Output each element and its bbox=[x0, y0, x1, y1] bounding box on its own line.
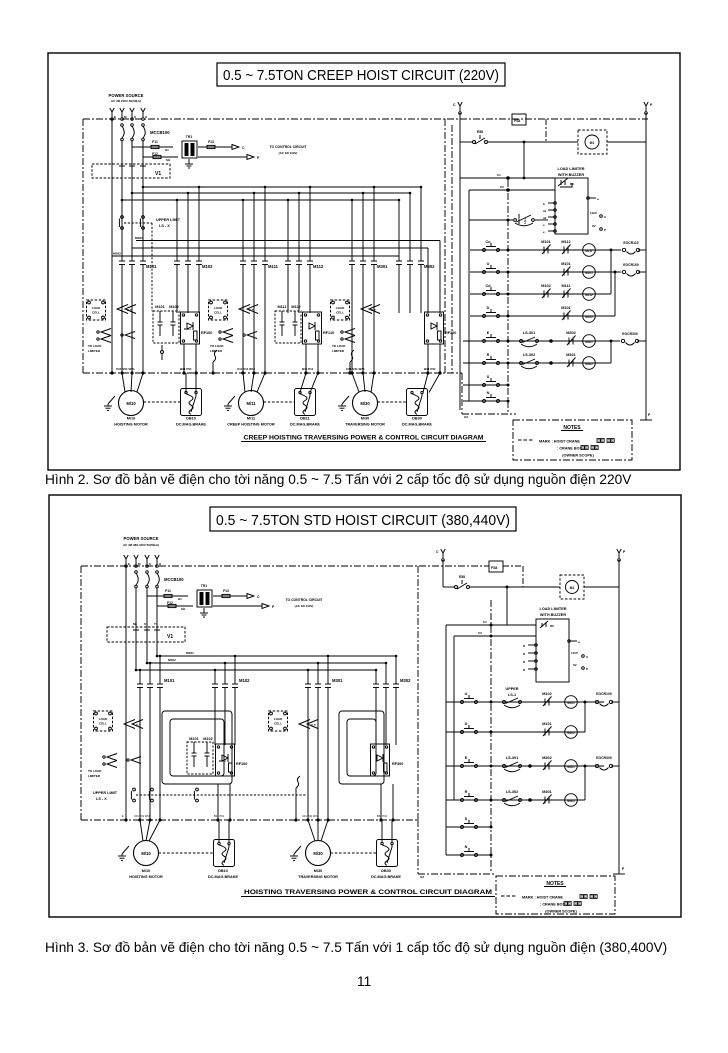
svg-text:M1: M1 bbox=[590, 141, 595, 145]
svg-text:U01 V01 W01: U01 V01 W01 bbox=[116, 367, 135, 371]
svg-text:TRAVERSING MOTOR: TRAVERSING MOTOR bbox=[298, 875, 338, 879]
svg-text:RF300: RF300 bbox=[392, 762, 403, 766]
svg-text:F11: F11 bbox=[165, 589, 171, 593]
svg-text:E58: E58 bbox=[459, 575, 465, 579]
svg-text:MS01: MS01 bbox=[186, 651, 194, 655]
svg-text:E: E bbox=[114, 115, 116, 119]
svg-text:0V: 0V bbox=[573, 663, 577, 667]
svg-text:(AC 1Ø 110V): (AC 1Ø 110V) bbox=[295, 604, 314, 608]
svg-text:MCCB100: MCCB100 bbox=[164, 577, 184, 582]
svg-text:C: C bbox=[257, 595, 260, 599]
svg-text:TR1: TR1 bbox=[201, 584, 208, 588]
svg-text:M102: M102 bbox=[541, 284, 551, 288]
svg-text:D: D bbox=[523, 644, 526, 648]
svg-text:B31 P31: B31 P31 bbox=[424, 367, 436, 371]
svg-text:M112: M112 bbox=[313, 264, 324, 269]
svg-text:C: C bbox=[586, 655, 589, 659]
svg-text:F12: F12 bbox=[152, 152, 158, 156]
svg-text:LS-302: LS-302 bbox=[506, 790, 518, 794]
svg-text:EOCR300: EOCR300 bbox=[596, 756, 612, 760]
svg-text:DB11: DB11 bbox=[300, 417, 310, 421]
svg-text:P: P bbox=[586, 667, 588, 671]
svg-text:M302: M302 bbox=[585, 362, 593, 366]
svg-text:M: M bbox=[124, 115, 127, 119]
svg-text:RF110: RF110 bbox=[323, 331, 334, 335]
svg-text:FS8: FS8 bbox=[491, 566, 497, 570]
svg-text:0.5 ~ 7.5TON CREEP HOIST CIRCU: 0.5 ~ 7.5TON CREEP HOIST CIRCUIT (220V) bbox=[223, 68, 499, 84]
svg-text:P: P bbox=[650, 103, 653, 107]
svg-text:UPPER: UPPER bbox=[505, 687, 518, 691]
svg-text:F13: F13 bbox=[208, 140, 214, 144]
svg-text:C: C bbox=[242, 146, 245, 150]
svg-text:TO LOAD: TO LOAD bbox=[332, 344, 346, 348]
svg-text:M/30: M/30 bbox=[313, 851, 323, 856]
svg-text:TR1: TR1 bbox=[186, 135, 193, 139]
svg-text:110V: 110V bbox=[571, 651, 578, 655]
svg-text:M112: M112 bbox=[291, 305, 300, 309]
svg-text:POWER SOURCE: POWER SOURCE bbox=[124, 536, 159, 541]
svg-text:C.T: C.T bbox=[136, 723, 141, 727]
svg-text:TO LOAD: TO LOAD bbox=[88, 769, 102, 773]
svg-text:(OWNER SCOPE): (OWNER SCOPE) bbox=[545, 910, 577, 914]
svg-text:M302: M302 bbox=[424, 264, 435, 269]
svg-text:M112: M112 bbox=[585, 293, 593, 297]
svg-text:M/30: M/30 bbox=[314, 869, 322, 873]
svg-text:M101: M101 bbox=[585, 271, 593, 275]
svg-text:MS02: MS02 bbox=[168, 658, 176, 662]
svg-text:C: C bbox=[436, 550, 439, 554]
svg-text:R: R bbox=[465, 790, 468, 794]
svg-text:U: U bbox=[487, 262, 490, 266]
svg-text:M302: M302 bbox=[400, 678, 411, 683]
svg-text:DB10: DB10 bbox=[186, 417, 196, 421]
svg-text:e: e bbox=[543, 223, 545, 227]
svg-text:M/10: M/10 bbox=[141, 851, 151, 856]
svg-text:FS8: FS8 bbox=[514, 119, 520, 123]
svg-text:a: a bbox=[597, 197, 599, 201]
svg-text:0.5 ~ 7.5TON STD HOIST CIRCUIT: 0.5 ~ 7.5TON STD HOIST CIRCUIT (380,440V… bbox=[216, 513, 510, 529]
svg-text:a1: a1 bbox=[543, 209, 547, 213]
svg-text:M102: M102 bbox=[585, 315, 593, 319]
svg-text:LS-301: LS-301 bbox=[506, 756, 518, 760]
svg-text:E: E bbox=[122, 814, 124, 818]
svg-text:M101: M101 bbox=[189, 737, 199, 741]
svg-text:M301: M301 bbox=[542, 790, 552, 794]
svg-text:RF100: RF100 bbox=[236, 762, 247, 766]
svg-text:: CRANE BOX: : CRANE BOX bbox=[557, 447, 583, 451]
svg-text:MS02: MS02 bbox=[113, 252, 121, 256]
svg-text:LOAD LIMITER: LOAD LIMITER bbox=[540, 607, 567, 611]
svg-text:M101: M101 bbox=[541, 240, 551, 244]
svg-text:M301: M301 bbox=[585, 340, 593, 344]
svg-text:LS - X: LS - X bbox=[159, 224, 170, 228]
svg-text:M/10: M/10 bbox=[127, 417, 135, 421]
svg-text:M112: M112 bbox=[561, 240, 570, 244]
svg-text:0V: 0V bbox=[592, 224, 596, 228]
svg-text:DC.MAG.BRAKE: DC.MAG.BRAKE bbox=[176, 423, 206, 427]
svg-text:U: U bbox=[465, 692, 468, 696]
svg-text:WITH BUZZER: WITH BUZZER bbox=[540, 613, 566, 617]
svg-text:DB30: DB30 bbox=[381, 869, 391, 873]
svg-text:POWER SOURCE: POWER SOURCE bbox=[109, 93, 144, 98]
svg-text:M111: M111 bbox=[268, 264, 279, 269]
svg-text:M301: M301 bbox=[377, 264, 388, 269]
svg-text:B31 P31: B31 P31 bbox=[377, 814, 388, 818]
svg-text:TO LOAD: TO LOAD bbox=[210, 344, 224, 348]
svg-text:C1: C1 bbox=[497, 173, 501, 177]
svg-text:S: S bbox=[465, 817, 468, 821]
svg-text:B01 P01: B01 P01 bbox=[180, 367, 192, 371]
svg-text:S: S bbox=[134, 115, 136, 119]
svg-text:M111: M111 bbox=[277, 305, 286, 309]
svg-text:U11 V11 W11: U11 V11 W11 bbox=[237, 367, 256, 371]
svg-text:U31 V31 W31: U31 V31 W31 bbox=[302, 814, 319, 818]
svg-text:M/30: M/30 bbox=[361, 417, 369, 421]
svg-text:HOISTING TRAVERSING POWER &: HOISTING TRAVERSING POWER & CONTROL CIRC… bbox=[244, 889, 492, 896]
svg-text:MARK : HOIST CRANE: MARK : HOIST CRANE bbox=[539, 440, 580, 444]
svg-text:S: S bbox=[487, 375, 490, 379]
svg-text:C2: C2 bbox=[478, 631, 482, 635]
svg-text:M101: M101 bbox=[567, 701, 575, 705]
svg-text:(OWNER SCOPE): (OWNER SCOPE) bbox=[562, 454, 594, 458]
svg-text:D: D bbox=[465, 722, 468, 726]
svg-text:CREEP HOISTING MOTOR: CREEP HOISTING MOTOR bbox=[227, 423, 275, 427]
svg-text:F11: F11 bbox=[152, 140, 158, 144]
svg-text:UPPER: UPPER bbox=[517, 213, 521, 224]
svg-text:a: a bbox=[578, 640, 580, 644]
svg-text:RC: RC bbox=[550, 624, 555, 628]
svg-text:Cu: Cu bbox=[485, 240, 491, 244]
svg-text:M/10: M/10 bbox=[126, 401, 136, 406]
svg-text:H1: H1 bbox=[178, 597, 182, 601]
svg-text:D: D bbox=[487, 306, 490, 310]
svg-text:M101: M101 bbox=[164, 678, 175, 683]
svg-text:P: P bbox=[604, 228, 606, 232]
svg-text:N: N bbox=[465, 845, 468, 849]
svg-text:LS-301: LS-301 bbox=[523, 331, 535, 335]
svg-text:LIMITER: LIMITER bbox=[88, 774, 101, 778]
svg-text:M302: M302 bbox=[567, 799, 575, 803]
svg-text:MS01: MS01 bbox=[135, 236, 143, 240]
svg-text:CREEP HOISTING TRAVERSING P: CREEP HOISTING TRAVERSING POWER & CONTRO… bbox=[244, 435, 484, 442]
svg-text:SH: SH bbox=[166, 158, 170, 162]
svg-text:DC.MAG.BRAKE: DC.MAG.BRAKE bbox=[290, 423, 320, 427]
svg-text:B01 P01: B01 P01 bbox=[214, 814, 225, 818]
svg-text:S: S bbox=[149, 562, 151, 566]
svg-text:M: M bbox=[138, 562, 141, 566]
svg-text:e: e bbox=[543, 230, 545, 234]
svg-text:M1: M1 bbox=[570, 586, 575, 590]
svg-text:LIMITER: LIMITER bbox=[332, 349, 345, 353]
svg-text:UPPER LIMIT: UPPER LIMIT bbox=[93, 791, 118, 795]
svg-text:F12: F12 bbox=[167, 601, 173, 605]
svg-text:P: P bbox=[623, 550, 626, 554]
svg-text:M102: M102 bbox=[542, 692, 552, 696]
svg-text:F13: F13 bbox=[223, 589, 229, 593]
svg-text:M/11: M/11 bbox=[247, 417, 255, 421]
svg-text:C.T: C.T bbox=[249, 308, 254, 312]
svg-text:M102: M102 bbox=[239, 678, 250, 683]
svg-text:SH: SH bbox=[181, 607, 185, 611]
svg-text:M/10: M/10 bbox=[142, 869, 150, 873]
svg-text:E58: E58 bbox=[477, 130, 483, 134]
svg-text:M102: M102 bbox=[169, 305, 179, 309]
svg-text:a2: a2 bbox=[543, 216, 547, 220]
svg-text:EOCR300: EOCR300 bbox=[622, 332, 638, 336]
svg-text:G2: G2 bbox=[464, 415, 468, 419]
svg-text:U01 V01 W01: U01 V01 W01 bbox=[134, 814, 151, 818]
svg-text:HOISTING MOTOR: HOISTING MOTOR bbox=[129, 875, 163, 879]
svg-text:C1: C1 bbox=[483, 620, 487, 624]
svg-text:M111: M111 bbox=[585, 249, 593, 253]
svg-text:M302: M302 bbox=[542, 756, 552, 760]
svg-text:LOAD LIMITER: LOAD LIMITER bbox=[558, 167, 585, 171]
svg-text:EOCR110: EOCR110 bbox=[623, 241, 638, 245]
svg-text:M101: M101 bbox=[561, 262, 571, 266]
svg-text:LS-1: LS-1 bbox=[508, 693, 516, 697]
svg-text:M102: M102 bbox=[567, 731, 575, 735]
svg-text:C.T: C.T bbox=[127, 308, 132, 312]
svg-text:DCH: DCH bbox=[219, 759, 226, 763]
svg-text:AC 3Ø 380,440V 60(50Hz): AC 3Ø 380,440V 60(50Hz) bbox=[123, 543, 159, 547]
svg-text:LS-302: LS-302 bbox=[523, 353, 535, 357]
svg-text:EOCR100: EOCR100 bbox=[623, 263, 639, 267]
svg-text:M1: M1 bbox=[133, 622, 137, 626]
svg-text:TO CONTROL CIRCUIT: TO CONTROL CIRCUIT bbox=[286, 598, 324, 602]
svg-text:B11 P11: B11 P11 bbox=[302, 367, 314, 371]
svg-text:D: D bbox=[523, 668, 526, 672]
svg-text:HOISTING MOTOR: HOISTING MOTOR bbox=[114, 423, 148, 427]
svg-text:M101: M101 bbox=[155, 305, 165, 309]
svg-text:TRAVERSING MOTOR: TRAVERSING MOTOR bbox=[345, 423, 385, 427]
svg-text:D: D bbox=[523, 652, 526, 656]
svg-text:P: P bbox=[257, 156, 260, 160]
svg-text:M101: M101 bbox=[146, 264, 157, 269]
svg-text:EOCR100: EOCR100 bbox=[596, 692, 612, 696]
svg-text:P: P bbox=[622, 867, 625, 871]
svg-text:110V: 110V bbox=[590, 211, 597, 215]
svg-text:RF300: RF300 bbox=[445, 331, 456, 335]
svg-text:TO CONTROL CIRCUIT: TO CONTROL CIRCUIT bbox=[270, 145, 308, 149]
svg-text:C.T: C.T bbox=[371, 308, 376, 312]
svg-text:C.T: C.T bbox=[311, 723, 316, 727]
svg-text:M302: M302 bbox=[566, 331, 576, 335]
svg-text:M/11: M/11 bbox=[246, 401, 256, 406]
svg-text:DC.MAG.BRAKE: DC.MAG.BRAKE bbox=[402, 423, 432, 427]
svg-text:RC: RC bbox=[570, 182, 575, 186]
svg-text:TO LOAD: TO LOAD bbox=[88, 344, 102, 348]
svg-text:E: E bbox=[465, 756, 468, 760]
svg-text:M301: M301 bbox=[567, 765, 575, 769]
svg-text:b: b bbox=[543, 202, 545, 206]
svg-text:H: H bbox=[145, 115, 147, 119]
svg-text:RF100: RF100 bbox=[201, 331, 212, 335]
svg-text:E: E bbox=[128, 562, 130, 566]
svg-text:P: P bbox=[272, 605, 275, 609]
svg-text:AC 3Ø 220V 60(50Hz): AC 3Ø 220V 60(50Hz) bbox=[111, 99, 141, 103]
svg-text:V1: V1 bbox=[155, 171, 161, 177]
svg-text:DC.MAG.BRAKE: DC.MAG.BRAKE bbox=[208, 875, 238, 879]
svg-text:C2: C2 bbox=[500, 185, 504, 189]
svg-text:D: D bbox=[523, 660, 526, 664]
svg-text:P: P bbox=[648, 413, 651, 417]
svg-text:G2: G2 bbox=[420, 875, 424, 879]
svg-text:(AC 1Ø 110V): (AC 1Ø 110V) bbox=[279, 151, 298, 155]
svg-text:N: N bbox=[487, 391, 490, 395]
svg-text:U31 V31 W31: U31 V31 W31 bbox=[346, 367, 365, 371]
svg-text:MARK : HOIST CRANE: MARK : HOIST CRANE bbox=[522, 896, 563, 900]
svg-text:H1: H1 bbox=[165, 148, 169, 152]
svg-text:DB30: DB30 bbox=[412, 417, 422, 421]
svg-text:M301: M301 bbox=[332, 678, 343, 683]
svg-text:M/30: M/30 bbox=[360, 401, 370, 406]
svg-text:LIMITER: LIMITER bbox=[88, 349, 101, 353]
svg-text:E: E bbox=[487, 331, 490, 335]
svg-text:LS - X: LS - X bbox=[96, 797, 107, 801]
svg-text:M301: M301 bbox=[566, 353, 576, 357]
svg-text:MCCB100: MCCB100 bbox=[150, 130, 170, 135]
svg-text:M102: M102 bbox=[203, 737, 213, 741]
svg-text:WITH BUZZER: WITH BUZZER bbox=[558, 173, 584, 177]
svg-text:H: H bbox=[159, 562, 161, 566]
svg-text:M102: M102 bbox=[202, 264, 213, 269]
svg-text:DB10: DB10 bbox=[218, 869, 228, 873]
svg-text:DC.MAG.BRAKE: DC.MAG.BRAKE bbox=[371, 875, 401, 879]
svg-text:M101: M101 bbox=[561, 306, 571, 310]
svg-text:R: R bbox=[487, 353, 490, 357]
svg-text:Cd: Cd bbox=[485, 284, 491, 288]
svg-text:C: C bbox=[453, 103, 456, 107]
svg-text:M111: M111 bbox=[561, 284, 570, 288]
svg-text:: CRANE BOX: : CRANE BOX bbox=[540, 903, 566, 907]
svg-text:DCH: DCH bbox=[184, 327, 191, 331]
svg-text:M101: M101 bbox=[542, 722, 552, 726]
svg-text:C: C bbox=[604, 215, 607, 219]
svg-text:V1: V1 bbox=[167, 634, 173, 640]
